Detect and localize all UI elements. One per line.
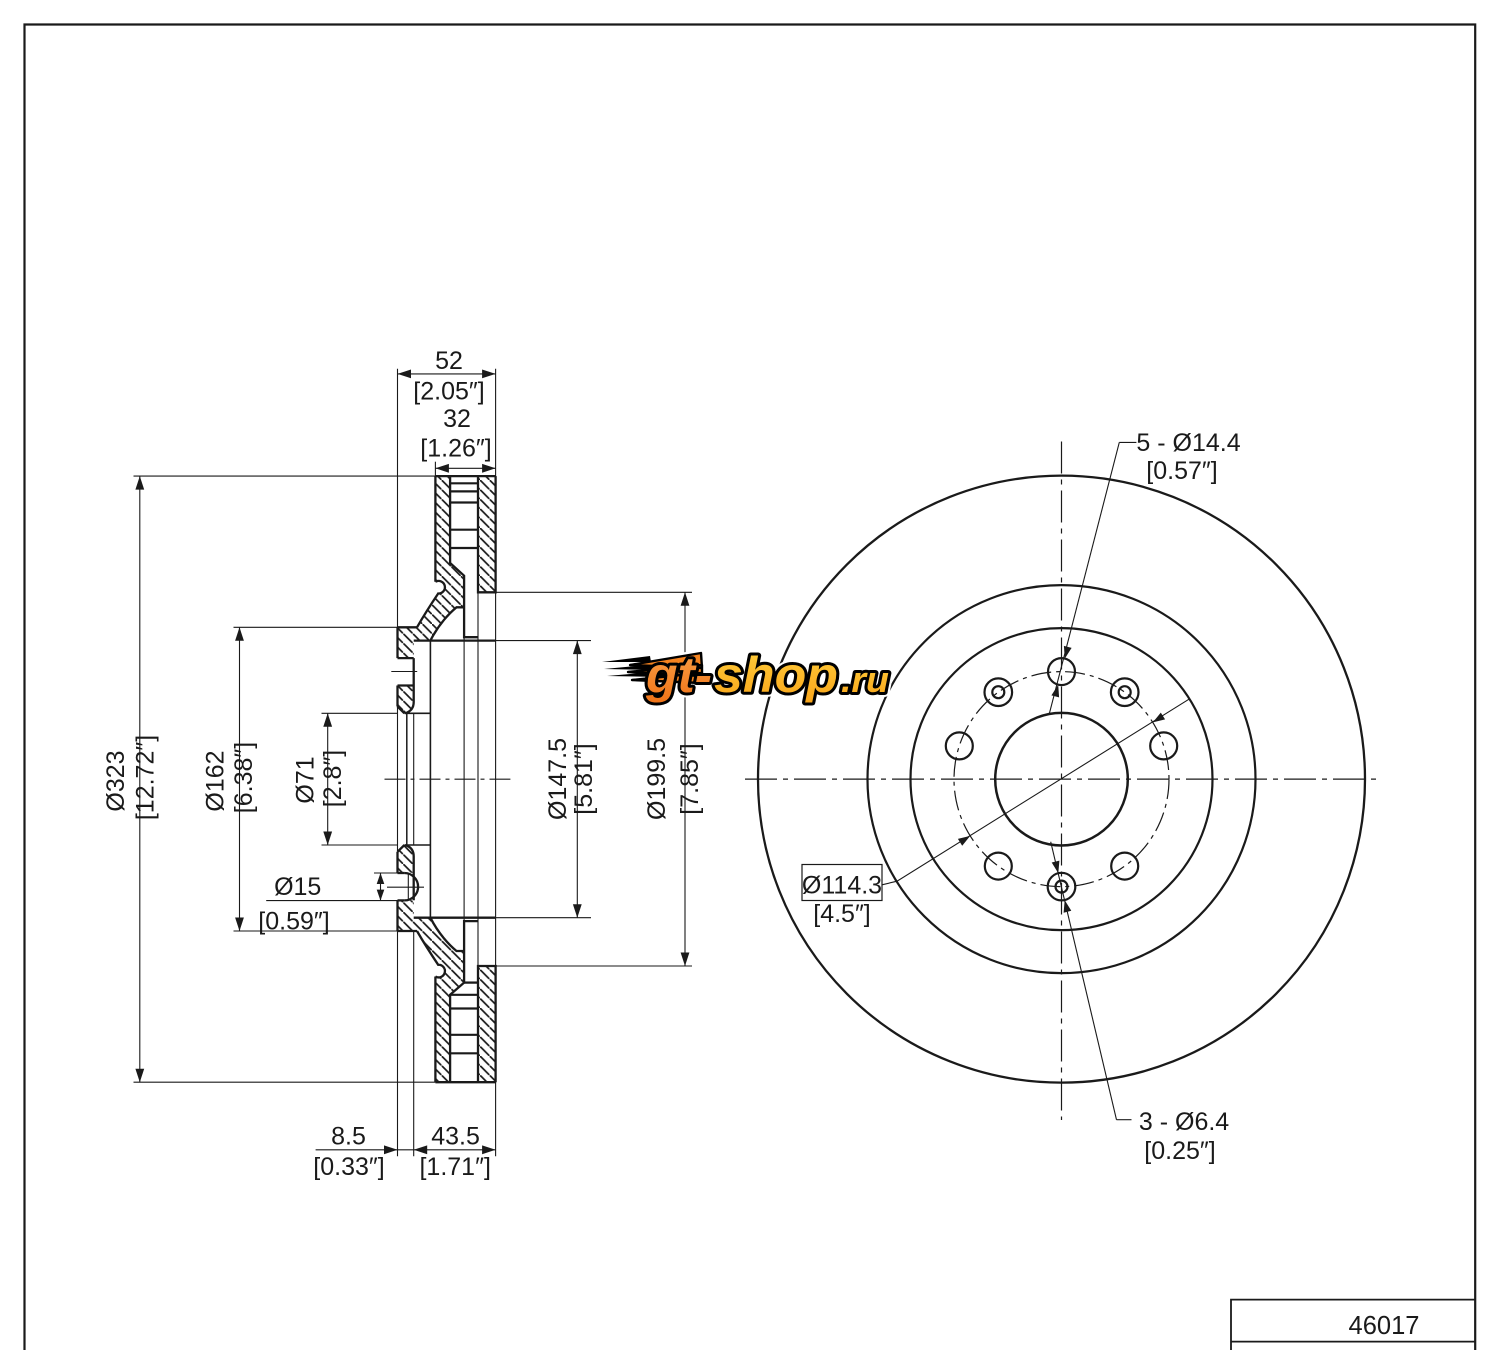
bolt circle diameter line dia 114.3 (882, 699, 1190, 885)
outline: flange left face segments (interrupted by holes and bore) (396, 627, 398, 658)
svg-text:5 - Ø14.4: 5 - Ø14.4 (1136, 429, 1240, 457)
svg-text:46017: 46017 (1349, 1312, 1420, 1340)
svg-text:Ø71: Ø71 (292, 756, 320, 803)
center tick: lower screw hole in section (387, 886, 424, 888)
section hatch: lower-left plate + hat cone + flange (398, 900, 465, 1082)
logo orange flame blades (628, 653, 702, 683)
face view: vertical centerline (1061, 442, 1063, 1121)
extension line: diameter 147.5 bottom (496, 917, 591, 919)
outline: lower hat shelf and cone inner surface (430, 918, 464, 951)
dimension diameter 71: vertical line and arrows (327, 713, 329, 845)
extension line: 32 dim left stub (434, 462, 436, 476)
outline: bore surface upper (404, 712, 430, 714)
svg-text:Ø15: Ø15 (274, 873, 321, 901)
outline: lower slot ledge at jog (464, 981, 478, 983)
dimension diameter 199.5: vertical line and arrows (684, 592, 686, 966)
outline: lower groove + hat cone outer surface (417, 931, 445, 977)
label box dia 114.3 (802, 865, 882, 901)
extension line: diameter 199.5 top (496, 591, 692, 593)
dimension diameter 162: vertical line and arrows (239, 627, 241, 931)
face view: bolt circle dia 114.3 dash-dot (954, 672, 1169, 887)
extension line: diameter 71 bottom (322, 844, 398, 846)
face view: horizontal centerline (745, 778, 1378, 780)
outline: upper right plate (478, 476, 496, 592)
outline: bore chamfer upper (398, 707, 405, 714)
outline: lower left plate left edge (434, 977, 436, 1083)
svg-text:shop: shop (714, 647, 838, 703)
outline: upper left plate vent edge + jog (450, 476, 478, 637)
outline: upper left plate left edge (434, 476, 436, 582)
section hatch: upper-left plate + hat cone + flange (398, 476, 465, 658)
svg-text:[7.85″]: [7.85″] (676, 743, 704, 814)
projection line: hat cavity floor face (429, 641, 431, 918)
svg-text:Ø199.5: Ø199.5 (643, 738, 671, 820)
section hatch: lower-right friction plate (478, 966, 496, 1082)
outline: flange bottom face (398, 930, 418, 932)
dimension 43.5: line and arrows (414, 1149, 496, 1151)
extension line: diameter 162 bottom (234, 930, 398, 932)
outline: disc outer top edge (435, 475, 495, 477)
projection line: disc right face full (dims 52/32/43.5) (495, 369, 497, 1156)
white cutout: lower counterbored screw hole (3-6.4 with 15 cbore) (398, 873, 419, 900)
outline: upper groove + hat cone outer surface (417, 581, 445, 627)
leader: 3 - dia 6.4 label to bottom screw hole (1117, 1119, 1132, 1121)
outline: counterbore floor line (407, 874, 409, 899)
dimension diameter 323: vertical line and arrows (139, 476, 141, 1082)
svg-text:[1.71″]: [1.71″] (419, 1153, 490, 1181)
outline: flange right face lower + fillet to bore (405, 845, 413, 900)
five bolt holes dia 14.4 (1048, 658, 1075, 685)
outline: upper bolt hole channel walls (398, 657, 414, 659)
outline: upper hat shelf and cone inner surface (430, 607, 464, 640)
projection line: vent slot right face down (477, 592, 479, 966)
projection line: hat neck face down (463, 637, 465, 921)
svg-text:[1.26″]: [1.26″] (420, 435, 491, 463)
leader: 5 - dia 14.4 label to top bolt hole (1119, 441, 1136, 443)
extension line: diameter 15 bottom / label underline (266, 900, 397, 902)
svg-text:[2.8″]: [2.8″] (319, 750, 347, 808)
projection line: flange left face through bore (397, 707, 399, 852)
extension line: diameter 71 top (322, 712, 398, 714)
outline: upper hat cavity floor (dia 147.5 surface) (414, 639, 496, 641)
vane lines lower (450, 994, 478, 996)
svg-text:Ø147.5: Ø147.5 (544, 738, 572, 820)
extension line: diameter 147.5 top (496, 640, 591, 642)
extension line: diameter 162 top / flange top left (234, 626, 398, 628)
logo speed spikes (602, 656, 666, 677)
svg-text:.ru: .ru (841, 659, 889, 700)
section hatch: lower flange piece above counterbored hole (398, 845, 414, 873)
outline: bore surface lower (404, 844, 430, 846)
projection line: flange right face through bore (413, 713, 415, 845)
outline: lower screw hole counterbore walls (398, 872, 405, 874)
face view: friction band inner circle dia 199.5 (868, 585, 1256, 973)
svg-text:[12.72″]: [12.72″] (132, 735, 160, 820)
face view: hub bore circle dia 71 (995, 713, 1128, 846)
extension line: diameter 323 top (134, 475, 436, 477)
extension line: diameter 323 bottom (134, 1081, 436, 1083)
outline: lower left plate vent edge + jog (450, 921, 478, 1082)
dimension 8.5: line and arrow (316, 1149, 414, 1151)
svg-text:[0.33″]: [0.33″] (313, 1153, 384, 1181)
svg-text:[2.05″]: [2.05″] (413, 377, 484, 405)
svg-text:Ø323: Ø323 (102, 750, 130, 811)
svg-text:3 - Ø6.4: 3 - Ø6.4 (1139, 1108, 1229, 1136)
svg-text:52: 52 (435, 347, 463, 375)
svg-text:Ø114.3: Ø114.3 (802, 872, 882, 900)
vane lines upper (450, 482, 478, 484)
outline: flange top face (398, 626, 418, 628)
outline: lower screw hole far-side arc (404, 873, 418, 900)
center tick: upper bolt hole in section (391, 671, 417, 673)
section hatch: upper flange piece below bolt hole (398, 686, 414, 714)
dimension 32: line and arrows (435, 467, 495, 469)
svg-text:43.5: 43.5 (431, 1122, 480, 1150)
svg-text:Ø162: Ø162 (202, 750, 230, 811)
dimension 52: line and arrows (398, 373, 496, 375)
svg-text:gt-: gt- (645, 647, 712, 703)
projection line: bore chamfer edge (406, 713, 408, 845)
extension line: diameter 199.5 bottom (496, 965, 692, 967)
svg-text:[5.81″]: [5.81″] (570, 743, 598, 814)
outline: lower right plate (478, 966, 496, 1082)
title block box bottom right (1231, 1300, 1475, 1350)
centerline: section axis dash-dot (385, 778, 511, 780)
outline: bore chamfer lower (398, 845, 405, 852)
outline: flange right face upper + fillet to bore (405, 658, 413, 713)
svg-text:[6.38″]: [6.38″] (230, 742, 258, 813)
projection line: flange right face below section (dims 8.5/43.5) (413, 931, 415, 1156)
face view: flange circle dia 162 (911, 628, 1213, 930)
dimension diameter 15: small vertical line and arrows (380, 873, 382, 901)
outline: lower hat cavity floor (414, 917, 496, 919)
face view: outer circle dia 323 (758, 476, 1365, 1083)
outline: disc outer bottom edge (435, 1081, 495, 1083)
svg-text:[0.25″]: [0.25″] (1144, 1137, 1215, 1165)
svg-text:[0.57″]: [0.57″] (1146, 457, 1217, 485)
dimension diameter 147.5: vertical line and arrows (576, 641, 578, 918)
svg-text:[4.5″]: [4.5″] (813, 900, 871, 928)
svg-text:[0.59″]: [0.59″] (258, 908, 329, 936)
projection line: flange left face extended (dim 52 / 8.5) (397, 369, 399, 628)
svg-text:8.5: 8.5 (331, 1122, 366, 1150)
section hatch: upper-right friction plate (478, 476, 496, 592)
svg-text:32: 32 (443, 405, 471, 433)
three countersunk screw holes dia 6.4 with dia 15 cbore (1111, 678, 1139, 706)
extension line: diameter 15 top (374, 872, 398, 874)
